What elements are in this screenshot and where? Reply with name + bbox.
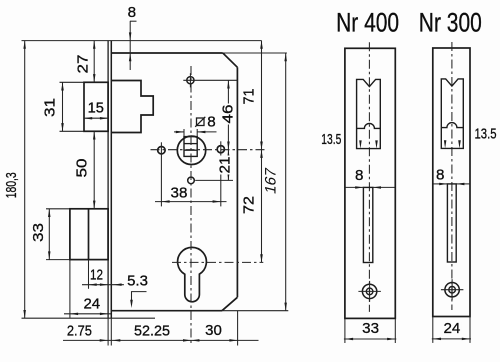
svg-text:38: 38 [171, 185, 188, 202]
svg-text:13.5: 13.5 [475, 126, 497, 143]
svg-text:24: 24 [443, 320, 460, 337]
svg-text:5.3: 5.3 [127, 273, 148, 290]
svg-text:71: 71 [241, 89, 258, 105]
svg-text:180,3: 180,3 [3, 172, 20, 198]
svg-text:8: 8 [436, 167, 444, 184]
svg-text:33: 33 [30, 223, 47, 242]
svg-text:13.5: 13.5 [321, 131, 341, 148]
svg-text:50: 50 [73, 159, 90, 178]
svg-text:Nr 400: Nr 400 [336, 8, 399, 38]
svg-text:33: 33 [362, 320, 379, 337]
svg-text:8: 8 [207, 114, 215, 131]
svg-text:30: 30 [205, 322, 222, 339]
svg-text:31: 31 [42, 98, 59, 117]
svg-text:15: 15 [88, 101, 104, 117]
svg-text:21: 21 [217, 157, 234, 174]
svg-text:8: 8 [355, 167, 363, 184]
svg-text:167: 167 [263, 166, 280, 196]
svg-text:24: 24 [83, 296, 100, 313]
svg-text:27: 27 [75, 55, 92, 74]
svg-text:8: 8 [128, 4, 136, 21]
svg-text:2.75: 2.75 [67, 323, 92, 340]
svg-text:12: 12 [90, 267, 103, 284]
svg-text:46: 46 [219, 105, 236, 124]
svg-text:52.25: 52.25 [134, 323, 170, 340]
svg-text:Nr 300: Nr 300 [419, 8, 482, 38]
svg-text:72: 72 [241, 196, 258, 214]
